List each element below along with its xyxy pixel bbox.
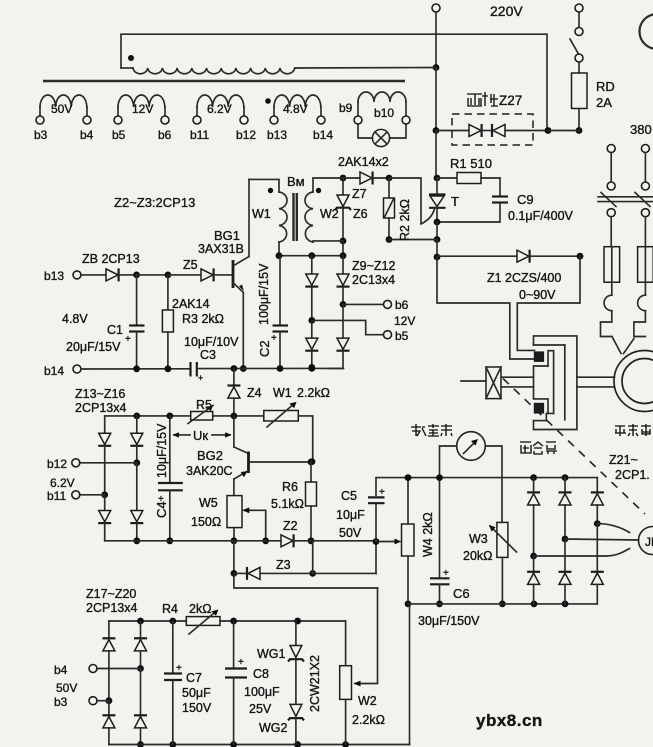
svg-text:Z7: Z7 — [352, 187, 367, 201]
svg-text:Bм: Bм — [287, 174, 305, 189]
svg-text:b6: b6 — [395, 298, 409, 312]
svg-text:Z5: Z5 — [183, 258, 198, 272]
svg-text:0.1μF/400V: 0.1μF/400V — [508, 209, 574, 223]
svg-text:4.8V: 4.8V — [62, 312, 88, 326]
svg-text:5.1kΩ: 5.1kΩ — [271, 497, 304, 511]
svg-text:+: + — [125, 334, 131, 345]
svg-text:b4: b4 — [54, 663, 68, 677]
svg-text:Z13~Z16: Z13~Z16 — [75, 387, 125, 401]
svg-text:b12: b12 — [47, 457, 67, 471]
svg-text:b12: b12 — [236, 128, 256, 142]
svg-text:12V: 12V — [132, 102, 153, 116]
svg-text:0~90V: 0~90V — [519, 288, 556, 302]
svg-text:b4: b4 — [80, 128, 94, 142]
svg-text:+: + — [271, 333, 277, 344]
svg-text:50V: 50V — [339, 526, 362, 540]
svg-text:50μF: 50μF — [182, 686, 211, 700]
svg-text:+: + — [238, 657, 244, 668]
svg-text:2AK14: 2AK14 — [172, 297, 210, 311]
svg-text:b3: b3 — [54, 695, 68, 709]
svg-text:T: T — [451, 194, 459, 209]
svg-text:R4: R4 — [162, 602, 178, 616]
svg-text:W3: W3 — [469, 532, 488, 546]
svg-text:10μF/15V: 10μF/15V — [155, 423, 169, 478]
svg-text:R3 2kΩ: R3 2kΩ — [182, 312, 224, 326]
svg-text:b5: b5 — [395, 329, 409, 343]
svg-text:+: + — [379, 487, 385, 498]
svg-text:+: + — [443, 568, 449, 579]
svg-text:100μF/15V: 100μF/15V — [257, 263, 271, 325]
svg-text:W2: W2 — [358, 694, 377, 708]
svg-text:10μF: 10μF — [336, 508, 365, 522]
svg-text:ybx8.cn: ybx8.cn — [476, 711, 543, 730]
svg-text:Z17~Z20: Z17~Z20 — [86, 587, 136, 601]
svg-text:R6: R6 — [282, 480, 298, 494]
svg-text:+: + — [158, 494, 164, 505]
svg-text:C6: C6 — [453, 586, 470, 601]
svg-text:Z4: Z4 — [247, 386, 262, 400]
svg-text:C5: C5 — [341, 489, 357, 503]
svg-text:b9: b9 — [339, 101, 353, 115]
svg-text:380: 380 — [630, 122, 652, 137]
svg-text:25V: 25V — [249, 702, 272, 716]
svg-text:Z2: Z2 — [283, 519, 298, 533]
svg-text:Uк: Uк — [193, 428, 208, 443]
svg-text:6.2V: 6.2V — [207, 102, 232, 116]
svg-text:150Ω: 150Ω — [191, 515, 221, 529]
svg-text:20kΩ: 20kΩ — [463, 549, 493, 563]
svg-text:C2: C2 — [257, 340, 272, 357]
svg-text:WG2: WG2 — [259, 721, 288, 735]
svg-text:2CP1.: 2CP1. — [615, 468, 650, 482]
svg-text:C7: C7 — [186, 671, 202, 685]
svg-text:100μF: 100μF — [244, 685, 280, 699]
svg-text:Z6: Z6 — [353, 207, 368, 221]
svg-text:3AK20C: 3AK20C — [186, 464, 233, 478]
svg-text:C3: C3 — [200, 348, 216, 362]
svg-text:JF: JF — [645, 535, 653, 549]
svg-text:2A: 2A — [596, 95, 612, 110]
svg-text:b3: b3 — [34, 128, 48, 142]
svg-text:BG1: BG1 — [214, 228, 240, 243]
svg-text:2.2kΩ: 2.2kΩ — [352, 713, 385, 727]
svg-text:2kΩ: 2kΩ — [189, 602, 212, 616]
svg-text:W2: W2 — [320, 207, 339, 221]
svg-text:C8: C8 — [253, 667, 269, 681]
svg-text:+: + — [176, 663, 182, 674]
svg-text:Z2~Z3:2CP13: Z2~Z3:2CP13 — [114, 195, 195, 210]
svg-text:BG2: BG2 — [197, 448, 223, 463]
svg-text:Z1 2CZS/400: Z1 2CZS/400 — [487, 271, 561, 285]
svg-text:Z27: Z27 — [499, 93, 522, 108]
svg-text:R5: R5 — [196, 398, 212, 412]
svg-text:20μF/15V: 20μF/15V — [66, 340, 121, 354]
svg-text:220V: 220V — [490, 3, 523, 19]
svg-text:C1: C1 — [107, 323, 123, 337]
svg-text:10μF/10V: 10μF/10V — [184, 335, 239, 349]
svg-text:b13: b13 — [267, 128, 287, 142]
svg-text:2C13x4: 2C13x4 — [352, 273, 395, 287]
svg-text:W1: W1 — [252, 207, 271, 221]
svg-text:4.8V: 4.8V — [283, 102, 308, 116]
svg-text:RD: RD — [596, 79, 615, 94]
svg-text:R2 2kΩ: R2 2kΩ — [398, 199, 412, 241]
svg-text:+: + — [198, 373, 203, 383]
svg-text:C9: C9 — [517, 192, 534, 207]
svg-text:b5: b5 — [112, 128, 126, 142]
svg-text:3AX31B: 3AX31B — [198, 242, 244, 256]
svg-text:2.2kΩ: 2.2kΩ — [297, 386, 330, 400]
svg-text:b13: b13 — [44, 269, 64, 283]
svg-text:b14: b14 — [313, 128, 333, 142]
svg-text:W4 2kΩ: W4 2kΩ — [421, 512, 435, 557]
svg-text:W5: W5 — [199, 496, 218, 510]
svg-text:b10: b10 — [374, 106, 394, 120]
svg-text:30μF/150V: 30μF/150V — [418, 614, 480, 628]
svg-text:Z3: Z3 — [276, 558, 291, 572]
svg-text:ZB 2CP13: ZB 2CP13 — [82, 252, 140, 266]
svg-text:R1 510: R1 510 — [450, 156, 492, 171]
svg-text:150V: 150V — [182, 701, 212, 715]
svg-text:Z9~Z12: Z9~Z12 — [352, 259, 395, 273]
svg-text:2AK14x2: 2AK14x2 — [338, 155, 389, 169]
svg-text:2CW21X2: 2CW21X2 — [308, 655, 322, 712]
svg-text:b11: b11 — [47, 489, 66, 503]
svg-text:12V: 12V — [394, 314, 415, 328]
svg-text:WG1: WG1 — [257, 647, 286, 661]
svg-text:Z21~: Z21~ — [609, 453, 638, 467]
svg-text:50V: 50V — [56, 681, 77, 695]
svg-text:W1: W1 — [273, 386, 292, 400]
svg-text:2CP13x4: 2CP13x4 — [75, 401, 126, 415]
svg-text:2CP13x4: 2CP13x4 — [86, 601, 137, 615]
svg-text:50V: 50V — [51, 102, 72, 116]
svg-text:b11: b11 — [190, 128, 209, 142]
svg-text:6.2V: 6.2V — [50, 476, 75, 490]
svg-text:b14: b14 — [44, 364, 64, 378]
svg-text:b6: b6 — [158, 128, 172, 142]
